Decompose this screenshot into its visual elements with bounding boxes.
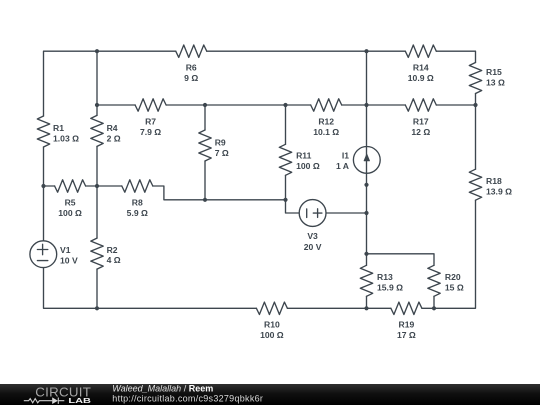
svg-text:V3: V3 (307, 231, 318, 241)
svg-text:I1: I1 (342, 151, 349, 161)
svg-text:5.9 Ω: 5.9 Ω (127, 208, 148, 218)
svg-text:9 Ω: 9 Ω (184, 73, 198, 83)
svg-text:10.1 Ω: 10.1 Ω (313, 127, 339, 137)
svg-text:10.9 Ω: 10.9 Ω (408, 73, 434, 83)
svg-text:7 Ω: 7 Ω (215, 148, 229, 158)
svg-text:R2: R2 (107, 245, 118, 255)
svg-text:12 Ω: 12 Ω (411, 127, 430, 137)
svg-text:13 Ω: 13 Ω (486, 78, 505, 88)
svg-text:10 V: 10 V (60, 255, 78, 265)
svg-text:R17: R17 (413, 116, 429, 126)
svg-text:100 Ω: 100 Ω (58, 208, 82, 218)
svg-text:R14: R14 (413, 63, 429, 73)
svg-text:R6: R6 (186, 63, 197, 73)
svg-text:R1: R1 (53, 123, 64, 133)
svg-text:LAB: LAB (68, 396, 91, 405)
svg-text:R11: R11 (296, 151, 312, 161)
svg-text:1.03 Ω: 1.03 Ω (53, 134, 79, 144)
svg-text:17 Ω: 17 Ω (397, 330, 416, 340)
svg-text:R8: R8 (132, 197, 143, 207)
svg-text:R7: R7 (145, 116, 156, 126)
svg-text:http://circuitlab.com/c9s3279q: http://circuitlab.com/c9s3279qbkk6r (112, 394, 263, 404)
svg-text:Waleed_Malallah / Reem: Waleed_Malallah / Reem (112, 384, 213, 394)
svg-text:R19: R19 (399, 320, 415, 330)
svg-text:20 V: 20 V (304, 242, 322, 252)
svg-text:R18: R18 (486, 176, 502, 186)
svg-text:100 Ω: 100 Ω (260, 330, 284, 340)
svg-text:R20: R20 (445, 272, 461, 282)
svg-text:R13: R13 (377, 272, 393, 282)
svg-text:R10: R10 (264, 320, 280, 330)
svg-text:15.9 Ω: 15.9 Ω (377, 282, 403, 292)
svg-text:4 Ω: 4 Ω (107, 255, 121, 265)
svg-text:100 Ω: 100 Ω (296, 161, 320, 171)
svg-text:R5: R5 (65, 197, 76, 207)
svg-text:R4: R4 (107, 123, 118, 133)
svg-text:V1: V1 (60, 245, 71, 255)
svg-text:R15: R15 (486, 67, 502, 77)
svg-text:R12: R12 (318, 116, 334, 126)
svg-text:13.9 Ω: 13.9 Ω (486, 187, 512, 197)
svg-text:7.9 Ω: 7.9 Ω (140, 127, 161, 137)
svg-text:2 Ω: 2 Ω (107, 134, 121, 144)
svg-text:R9: R9 (215, 137, 226, 147)
svg-text:1 A: 1 A (336, 161, 349, 171)
svg-text:15 Ω: 15 Ω (445, 282, 464, 292)
